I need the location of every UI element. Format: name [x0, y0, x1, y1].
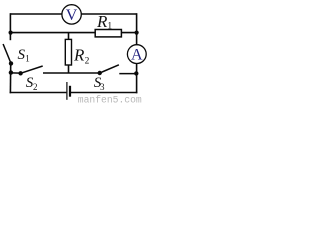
- wire top from left corner to right corner: [10, 13, 136, 15]
- svg-text:3: 3: [100, 82, 105, 92]
- wire second horizontal line (R1 line): [10, 32, 137, 34]
- switch S3 terminal dot: [98, 71, 102, 75]
- node left junction dot: [9, 30, 13, 34]
- wire left rail upper (corner to S1 stub end): [9, 13, 11, 40]
- wire middle line: S2 to S3 dot: [43, 72, 100, 74]
- resistor R2 box: [65, 39, 71, 65]
- svg-text:2: 2: [33, 82, 38, 92]
- svg-text:V: V: [66, 7, 78, 24]
- resistor R1 box: [95, 30, 121, 37]
- switch S3 blade: [100, 65, 119, 73]
- svg-text:R: R: [73, 45, 85, 64]
- wire bottom right of battery: [70, 92, 137, 94]
- node right middle junction dot: [134, 71, 138, 75]
- svg-text:2: 2: [85, 57, 90, 67]
- node left middle junction dot: [9, 70, 13, 74]
- switch S2 terminal dot: [18, 71, 22, 75]
- battery cell short thick plate: [69, 86, 71, 97]
- ammeter A circle: [127, 45, 146, 64]
- svg-text:1: 1: [25, 54, 30, 64]
- wire R2 branch bottom tick: [68, 65, 70, 73]
- wire bottom left of battery: [10, 92, 67, 94]
- voltmeter V circle: [62, 5, 81, 24]
- svg-text:R: R: [96, 12, 108, 31]
- svg-text:manfen5.com: manfen5.com: [78, 95, 142, 104]
- svg-text:1: 1: [107, 22, 112, 32]
- switch S2 blade: [21, 66, 43, 73]
- wire left rail lower (S1 pivot down to bottom corner): [9, 63, 11, 93]
- svg-text:A: A: [131, 47, 143, 64]
- wire middle line: S3 to right rail: [119, 73, 136, 75]
- node right junction dot: [135, 30, 139, 34]
- wire middle line: left dot to S2 dot: [11, 72, 21, 74]
- switch S1 blade: [3, 44, 11, 63]
- wire R2 branch top tick: [68, 33, 70, 40]
- battery cell long plate: [66, 82, 68, 100]
- wire right rail: [136, 13, 138, 93]
- switch S1 pivot dot: [9, 61, 13, 65]
